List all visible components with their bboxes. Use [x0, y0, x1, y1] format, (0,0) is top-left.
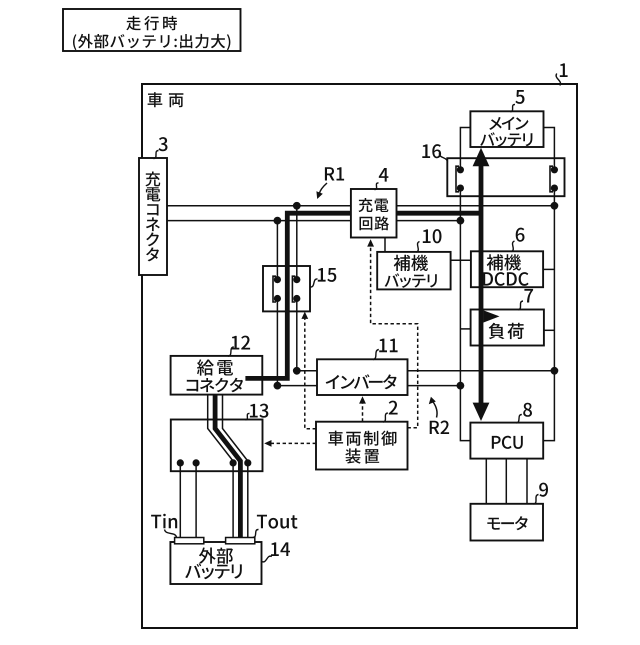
power feed connector box 12 給電コネクタ	[171, 356, 263, 395]
reference numeral 14	[271, 542, 290, 556]
junction node W1 right	[551, 202, 559, 210]
Tin terminal tab	[175, 538, 204, 544]
leader for 16	[439, 153, 447, 163]
reference numeral 15	[318, 268, 337, 282]
leader for 2	[383, 413, 388, 422]
aux battery box 10 補機バッテリ	[377, 252, 450, 290]
R2 arrowhead	[429, 397, 436, 404]
label in box 2	[328, 431, 396, 446]
junction node W4 left	[274, 382, 282, 390]
relay15 contact dot 1	[274, 276, 281, 283]
relay16 stub bottom-left	[459, 188, 461, 196]
charging circuit box 4 充電回路	[351, 189, 397, 238]
wire aux battery to aux DCDC	[451, 259, 471, 261]
leader line for 1	[556, 74, 560, 86]
relay15 stub bottom-left	[276, 299, 278, 312]
leader for 4	[375, 183, 379, 190]
junction node W4 right	[457, 382, 465, 390]
reference numeral 13	[250, 404, 269, 418]
leader for Tout	[253, 529, 259, 537]
junction node W3 right	[551, 367, 559, 375]
arrowhead dashed into relay 15	[301, 312, 308, 319]
relay16 bracket left	[456, 166, 459, 192]
leader for 10	[416, 242, 419, 253]
leader for 11	[373, 350, 379, 360]
leader for 9	[534, 495, 539, 505]
aux DCDC box 6 補機DCDC	[471, 251, 543, 287]
R2 arrow curve	[433, 402, 437, 418]
wire main battery right terminal down to PCU right	[543, 128, 554, 441]
reference numeral 2	[389, 401, 398, 415]
reference numeral 5	[515, 90, 524, 104]
leader for 14	[262, 556, 272, 562]
relay15 stub top-right	[296, 266, 298, 280]
label in box 11	[326, 374, 397, 389]
relay16 stub top-right	[553, 158, 555, 170]
Tout terminal tab	[226, 538, 255, 544]
reference numeral 4	[379, 168, 389, 182]
wire thin right of trio (box12 to Tout)	[223, 395, 248, 538]
relay15 contact dot 2	[274, 295, 281, 302]
wire PCU to motor 2	[505, 459, 507, 504]
leader for 12	[228, 347, 234, 356]
label in box 8	[492, 436, 523, 449]
label: vehicle 車両	[148, 92, 184, 107]
reference numeral 1	[560, 63, 568, 77]
arrowhead down into PCU	[473, 403, 490, 421]
wire thin left of trio (box12 to Tout)	[208, 395, 233, 538]
label in box 9	[487, 516, 527, 530]
wire W1: charge connector to relay16 right column (top)	[167, 205, 554, 207]
junction node W1 left	[293, 202, 301, 210]
label in box 10	[394, 255, 428, 271]
relay16 contact dot 2	[457, 185, 464, 192]
reference numeral 8	[523, 403, 532, 417]
wire aux DCDC right to right column	[543, 268, 554, 270]
external battery box 14 外部バッテリ	[170, 542, 261, 584]
contact dot box13 b	[193, 459, 200, 466]
wire W4: inverter bottom wire	[277, 385, 460, 387]
label in box 12	[197, 359, 233, 375]
label in box 4	[359, 198, 389, 212]
contact dot box13 a	[177, 459, 184, 466]
relay15 contact dot 4	[293, 295, 300, 302]
wire vertical from W1 down through relay 15 right contacts	[296, 206, 298, 371]
arrowhead branch into load box	[483, 310, 499, 322]
title line 2 (external battery: high output)	[73, 34, 230, 50]
relay16 bracket right	[550, 166, 553, 192]
arrowhead dashed into charging circuit	[367, 239, 374, 246]
relay15 stub top-left	[276, 266, 278, 280]
contact dot box13 c	[230, 459, 237, 466]
reference numeral R2	[430, 421, 449, 435]
R1 arrow curve	[319, 183, 327, 194]
label Tout	[257, 515, 298, 529]
wire load right tick	[544, 329, 555, 331]
relay16 contact dot 4	[551, 185, 558, 192]
wire load left tick	[460, 328, 470, 330]
reference numeral 7	[524, 289, 533, 303]
vehicle control box 2 車両制御装置	[316, 422, 408, 470]
reference numeral 16	[422, 144, 441, 158]
motor box 9 モータ	[471, 504, 544, 541]
wire PCU to motor 1	[485, 459, 487, 504]
label in box 7	[489, 323, 524, 339]
thick power wire box12 to Tout tab	[215, 395, 240, 538]
dashed line control to relay 15	[305, 316, 316, 429]
label in box 3 (vertical)	[145, 172, 160, 262]
relay15 bracket left	[273, 276, 276, 302]
wire charging circuit to aux battery	[384, 238, 386, 252]
dashed line control to charging circuit	[371, 244, 418, 428]
PCU box 8	[470, 423, 543, 459]
wire W3: inverter top wire	[297, 370, 555, 372]
title line 1 走行時	[126, 16, 177, 30]
reference numeral 6	[516, 228, 525, 242]
relay16 stub top-left	[459, 158, 461, 170]
relay15 bracket right	[292, 276, 295, 302]
dashed line control to inverter	[362, 401, 364, 422]
relay16 stub bottom-right	[553, 188, 555, 196]
thick power line vertical (main battery to PCU)	[479, 160, 484, 408]
leader for 6	[511, 241, 514, 252]
leader for 15	[310, 279, 317, 287]
reference numeral 3	[159, 137, 168, 151]
leader for 5	[510, 104, 515, 111]
leader for Tin	[165, 530, 177, 538]
leader for 7	[518, 301, 523, 310]
outer frame of vehicle (box 1)	[142, 84, 577, 628]
wire main battery left terminal down to PCU left	[460, 128, 470, 441]
inverter box 11 インバータ	[317, 359, 408, 395]
reference numeral R1	[325, 167, 344, 180]
leader for 13	[245, 413, 249, 419]
wire PCU to motor 3	[526, 459, 528, 504]
wire W2: charge connector to relay16 left column (bottom)	[167, 220, 460, 222]
junction node W2 left	[274, 217, 282, 225]
reference numeral 10	[423, 229, 442, 243]
junction node W3 left	[293, 367, 301, 375]
thick power wire: charging circuit to main battery column	[397, 211, 482, 216]
relay15 contact dot 3	[293, 276, 300, 283]
arrowhead up into main battery	[473, 148, 490, 166]
label in box 5	[489, 117, 528, 130]
leader for 3	[154, 151, 159, 159]
relay15 stub bottom-right	[296, 299, 298, 312]
relay box 15	[263, 266, 310, 311]
label in box 6	[487, 254, 521, 270]
reference numeral 11	[379, 339, 397, 353]
relay box 16	[447, 158, 564, 196]
junction node W2 right	[457, 217, 465, 225]
R1 arrowhead	[316, 191, 322, 199]
reference numeral 9	[539, 483, 548, 497]
relay16 contact dot 3	[551, 166, 558, 173]
main battery box 5 メインバッテリ	[470, 111, 543, 147]
charge connector box 3 充電コネクタ	[139, 158, 167, 275]
wire vertical from W2 down through relay 15 left contacts	[276, 221, 278, 386]
load box 7 負荷	[471, 310, 544, 346]
arrowhead dashed into inverter	[359, 396, 366, 403]
relay16 contact dot 1	[457, 166, 464, 173]
leader for 8	[516, 415, 522, 423]
wire Tin 1	[179, 463, 181, 538]
reference numeral 12	[232, 336, 251, 350]
wire Tin 2	[195, 463, 197, 538]
title box (operating mode)	[63, 9, 241, 51]
dashed line control to switch box 13	[269, 442, 317, 444]
label Tin	[151, 514, 177, 529]
thick power wire: feed connector up to charging circuit	[245, 213, 352, 378]
arrowhead dashed into box 13	[264, 440, 271, 447]
relay box 13	[171, 420, 263, 472]
contact dot box13 d	[244, 459, 251, 466]
label in box 14	[199, 548, 233, 564]
